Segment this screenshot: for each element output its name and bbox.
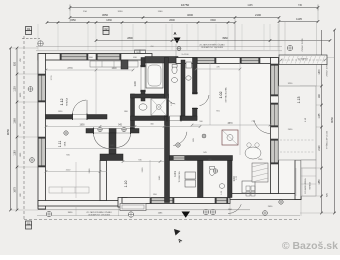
svg-text:3870: 3870: [227, 123, 233, 125]
label box bottom-left: [26, 221, 32, 229]
toilet: [172, 65, 177, 74]
door gaps corridor: [94, 129, 131, 134]
svg-text:2600: 2600: [169, 19, 175, 22]
more dim numbers interior: [58, 46, 307, 180]
shower cabin lower: [222, 130, 238, 145]
door arc hall right: [116, 133, 130, 147]
roof overhang line top: [36, 45, 282, 47]
door bottom entry: [150, 198, 174, 204]
bottom survey point 2: [46, 211, 51, 216]
door right terrace: [271, 103, 278, 127]
svg-text:TECHNICKÁ: TECHNICKÁ: [178, 171, 181, 183]
survey point top-left: [38, 41, 43, 46]
dim line corridor: [45, 124, 202, 128]
bottom note text: [86, 211, 112, 217]
washer dryer: [185, 172, 196, 187]
window top W2: [96, 54, 121, 60]
outer wall top west: [38, 54, 152, 61]
svg-text:1540: 1540: [210, 19, 216, 22]
svg-text:1135: 1135: [296, 17, 302, 21]
room label 1.11: [58, 141, 67, 148]
pillar stub: [121, 60, 128, 69]
toilet room 1.05: [209, 167, 214, 176]
door arc shaft to living: [200, 95, 210, 106]
outer wall bottom west: [38, 201, 122, 207]
terrace inner dashed 2: [280, 151, 314, 153]
svg-text:1890: 1890: [79, 124, 85, 126]
dim line top overall: [69, 3, 320, 11]
dim line inside 1.02 vertical2: [239, 63, 241, 155]
window top W1: [60, 54, 88, 60]
svg-text:OBÝVACIA IZBA: OBÝVACIA IZBA: [225, 87, 228, 103]
circled marker living: [202, 134, 206, 138]
svg-text:1550: 1550: [70, 19, 76, 22]
dim line right outer: [330, 29, 336, 215]
svg-text:SPÁLŇA: SPÁLŇA: [66, 97, 69, 106]
washbasin wc: [172, 78, 178, 83]
terrace right lower: [301, 160, 316, 196]
svg-text:2x 1100: 2x 1100: [182, 54, 190, 56]
svg-text:© Bazoš.sk: © Bazoš.sk: [282, 240, 338, 252]
right extension lines: [300, 58, 335, 214]
dining table: [245, 143, 261, 159]
dim line bottom rooms: [122, 159, 164, 163]
outer wall nook east: [295, 160, 301, 200]
bottom thin line: [37, 215, 300, 217]
svg-text:1135: 1135: [247, 4, 253, 7]
dim line left inner: [14, 47, 19, 212]
svg-text:1100: 1100: [158, 11, 163, 13]
svg-text:ZVISLÝ ZVOD: ZVISLÝ ZVOD: [326, 63, 329, 77]
interior wall hall step: [100, 154, 123, 161]
svg-text:VÝŠKA 1.NP ±0,000: VÝŠKA 1.NP ±0,000: [326, 130, 329, 149]
svg-text:16750: 16750: [181, 3, 190, 7]
svg-text:1135: 1135: [319, 113, 321, 119]
interior wall bathcluster top horizontal: [170, 156, 233, 161]
bottom survey points right: [203, 200, 283, 216]
shower top room: [151, 99, 167, 116]
interior wall bath-left vertical: [141, 58, 145, 102]
door gap bath-left: [141, 67, 145, 90]
terrace step verticals: [296, 168, 302, 196]
outer wall bottom step: [118, 198, 127, 208]
dim line inside 1.12 vertical: [95, 60, 97, 114]
svg-text:A: A: [173, 31, 176, 36]
house interior: [44, 58, 272, 200]
outer wall bottom east2: [230, 194, 301, 200]
boundary top stub: [22, 38, 40, 40]
door gap wall 1.12: [72, 100, 87, 119]
svg-text:IZBA: IZBA: [64, 141, 67, 146]
svg-text:1.02: 1.02: [219, 92, 223, 99]
dim line inside 1.02 horizontal: [191, 123, 272, 127]
svg-text:ZVISLÝ ZVOD: ZVISLÝ ZVOD: [301, 38, 304, 52]
interior wall bathcluster mid vertical: [198, 161, 204, 198]
door bottom entry 2: [215, 198, 228, 204]
closet bottom-left room: [49, 187, 89, 193]
svg-text:4x KVAPKY: 4x KVAPKY: [298, 57, 309, 60]
svg-text:1.11: 1.11: [58, 141, 62, 148]
dim line left outer: [6, 47, 12, 212]
svg-text:1670: 1670: [14, 187, 17, 193]
more dim numbers top: [83, 4, 302, 13]
outer wall left: [38, 54, 46, 210]
interior wall 1.12/1.11 horizontal right part: [87, 115, 107, 120]
room label 1.01: [173, 171, 181, 183]
svg-text:9050: 9050: [330, 117, 334, 123]
room label 1.03 circle: [64, 131, 68, 135]
svg-text:1.01: 1.01: [173, 171, 177, 177]
dim line bottom vertical: [149, 160, 151, 202]
outer wall top east: [176, 58, 277, 64]
svg-text:1450: 1450: [319, 179, 321, 185]
dim line right inner: [319, 30, 323, 214]
svg-text:TERASA: TERASA: [309, 181, 312, 189]
svg-text:1100: 1100: [14, 86, 17, 92]
interior wall hall vertical: [109, 133, 116, 154]
svg-text:3960: 3960: [222, 37, 228, 40]
kitchen counter hatched: [252, 163, 268, 182]
dim line top second: [69, 13, 281, 19]
window left W5: [38, 74, 45, 102]
dim line room 1.11 vertical: [75, 162, 77, 198]
svg-text:1.09: 1.09: [133, 81, 137, 87]
window left W6: [38, 137, 45, 167]
svg-text:4600: 4600: [187, 13, 193, 17]
outer wall right: [271, 58, 279, 194]
svg-text:2770: 2770: [67, 68, 73, 70]
terrace mid line: [301, 167, 316, 169]
threshold marks doors: [73, 66, 199, 134]
terrace outline: [279, 86, 317, 160]
svg-text:1.10: 1.10: [124, 181, 128, 188]
interior wall bathcluster right vertical: [228, 161, 233, 198]
svg-text:DOJAZD KRÍDLA: DOJAZD KRÍDLA: [304, 178, 307, 194]
window right W8: [271, 139, 278, 164]
svg-text:1180: 1180: [14, 150, 17, 156]
dim line top right: [278, 17, 320, 23]
bottom extension verticals: [76, 200, 301, 216]
dim line inside 1.02 top: [195, 68, 242, 71]
terrace inner dashed 1: [280, 139, 314, 141]
interior wall bedroom divider: [100, 161, 107, 201]
basin shower room: [139, 104, 147, 110]
window label box O1: [26, 27, 32, 35]
extension lines top: [38, 8, 318, 56]
svg-text:2890: 2890: [127, 37, 133, 40]
room label 1.06 circle: [176, 143, 180, 147]
interior wall shower-room top: [131, 94, 169, 98]
svg-text:820: 820: [14, 61, 17, 66]
gutter note text: [199, 43, 225, 49]
window top W3: [196, 58, 216, 64]
svg-text:9050: 9050: [6, 128, 10, 135]
outer wall top bath hatched: [145, 57, 178, 64]
bottom survey point: [128, 212, 133, 217]
interior wall bathcluster-left vertical: [165, 117, 170, 203]
door arc corridor small: [167, 96, 175, 104]
bottom plinth line: [38, 209, 250, 211]
svg-text:3150: 3150: [118, 11, 124, 13]
circled marker corridor: [98, 127, 126, 131]
section marker A top: [173, 31, 180, 44]
boiler shaft: [186, 62, 192, 68]
dim line corridor 2: [46, 148, 164, 150]
dim line inside 1.12 horizontal: [45, 68, 135, 72]
left extension lines: [11, 48, 39, 210]
interior wall corridor horizontal: [86, 129, 139, 134]
window label box O3: [135, 50, 146, 54]
svg-text:ODKVAPOVÝ CHODNÍK: ODKVAPOVÝ CHODNÍK: [88, 213, 111, 216]
extension line 1135: [285, 22, 317, 87]
house interior nook: [272, 160, 296, 194]
door gap bathcluster top: [172, 156, 186, 160]
room label 1.05 circle: [213, 169, 217, 173]
entry porch: [120, 204, 146, 211]
door arc hall left: [94, 133, 110, 149]
dim line inside 1.02 vertical: [209, 63, 211, 125]
radiator bottom room: [101, 195, 107, 200]
room label 1.02: [219, 87, 228, 103]
property boundary dashed bottom: [24, 219, 300, 221]
outer wall bottom east: [122, 198, 230, 204]
terrace note rotated: [304, 178, 312, 194]
svg-text:1600: 1600: [111, 68, 117, 70]
svg-text:1.13: 1.13: [297, 97, 301, 104]
interior wall shower-left vertical: [131, 94, 135, 129]
right dim rotated notes: [326, 63, 329, 197]
svg-text:2120: 2120: [319, 145, 321, 151]
interior wall bath-mid vertical: [164, 58, 168, 121]
interior wall shaft-right vertical: [193, 58, 198, 121]
interior wall 1.12/1.11 horizontal: [46, 115, 73, 120]
wardrobe top room 1.12: [90, 61, 138, 67]
more dim numbers bottom: [68, 206, 273, 215]
washbasin bath: [186, 76, 191, 80]
bathtub: [146, 63, 163, 88]
basin room 1.04: [219, 184, 225, 189]
terrace step lines: [301, 176, 316, 184]
svg-text:1330: 1330: [106, 19, 112, 22]
section line A: [175, 44, 177, 57]
svg-text:1360: 1360: [14, 118, 17, 124]
svg-text:3650: 3650: [102, 13, 108, 17]
door arc terrace: [254, 117, 271, 134]
section marker circle top: [177, 47, 181, 51]
entry door arc bottom: [228, 204, 241, 213]
kitchen sink block: [242, 181, 255, 196]
dim line room 1.11 horizontal: [45, 169, 107, 173]
room label 1.12: [60, 97, 69, 106]
interior wall wc-right vertical: [181, 60, 185, 116]
section marker A bottom: [174, 212, 190, 245]
window label box O2: [103, 27, 109, 35]
dim numbers scatter: [51, 57, 293, 196]
recessed gutter box top-right: [279, 55, 327, 65]
window right W7: [271, 64, 278, 96]
svg-text:1.12: 1.12: [60, 99, 64, 106]
svg-text:1470: 1470: [319, 69, 321, 75]
circled marker left wall: [28, 87, 33, 92]
door arc bath cluster: [173, 132, 187, 146]
door gap below bath: [168, 116, 180, 121]
interior wall below bath horizontal: [131, 116, 198, 121]
svg-text:2190: 2190: [255, 13, 261, 17]
roof overhang line top 2: [36, 50, 282, 52]
dim line mid y40: [95, 37, 332, 42]
more dim numbers left: [20, 57, 22, 196]
dim line top third: [46, 19, 237, 24]
survey point top-right: [287, 45, 292, 50]
svg-text:730: 730: [298, 4, 303, 7]
property boundary dashed left: [23, 36, 25, 220]
window top W4: [240, 58, 260, 64]
circled marker left wall 2: [30, 158, 35, 163]
